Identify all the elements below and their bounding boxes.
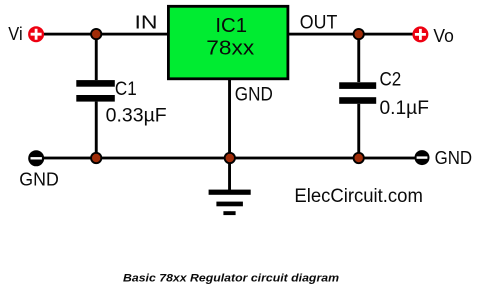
- svg-text:C1: C1: [115, 79, 137, 100]
- svg-text:GND: GND: [235, 83, 273, 105]
- junction J5: [353, 152, 365, 164]
- node GND left (-): [28, 150, 44, 166]
- svg-text:OUT: OUT: [300, 12, 338, 33]
- svg-text:GND: GND: [435, 148, 473, 168]
- svg-text:GND: GND: [19, 168, 59, 189]
- wire input top: [42, 33, 168, 36]
- svg-text:Vi: Vi: [8, 24, 22, 44]
- svg-text:IN: IN: [135, 11, 158, 32]
- svg-text:0.1µF: 0.1µF: [380, 98, 429, 119]
- junction J4: [224, 152, 236, 164]
- junction J2: [353, 28, 365, 40]
- wire C1 bottom stub: [95, 102, 98, 159]
- svg-text:ElecCircuit.com: ElecCircuit.com: [294, 185, 423, 207]
- svg-text:IC1: IC1: [215, 15, 247, 37]
- node Vi: [8, 24, 44, 44]
- svg-text:78xx: 78xx: [206, 38, 254, 60]
- capacitor C2: [339, 82, 376, 103]
- svg-text:Basic 78xx Regulator circuit d: Basic 78xx Regulator circuit diagram: [123, 273, 339, 285]
- node Vo: [412, 26, 453, 46]
- regulator IC1 78xx: [168, 6, 288, 79]
- wire C1 top stub: [95, 34, 98, 80]
- svg-text:Vo: Vo: [433, 26, 453, 46]
- capacitor C1: [76, 80, 115, 102]
- wire output top: [289, 33, 413, 36]
- wire ground rail: [40, 157, 418, 160]
- node GND right (-): [415, 150, 430, 165]
- wire C2 top stub: [357, 34, 360, 82]
- ground: [209, 190, 251, 215]
- wire ground stub: [228, 158, 231, 190]
- svg-text:0.33µF: 0.33µF: [106, 105, 167, 126]
- wire IC GND pin: [228, 79, 231, 159]
- svg-text:C2: C2: [380, 70, 402, 91]
- wire C2 bottom stub: [357, 104, 360, 159]
- junction J3: [90, 152, 102, 164]
- junction J1: [90, 28, 102, 40]
